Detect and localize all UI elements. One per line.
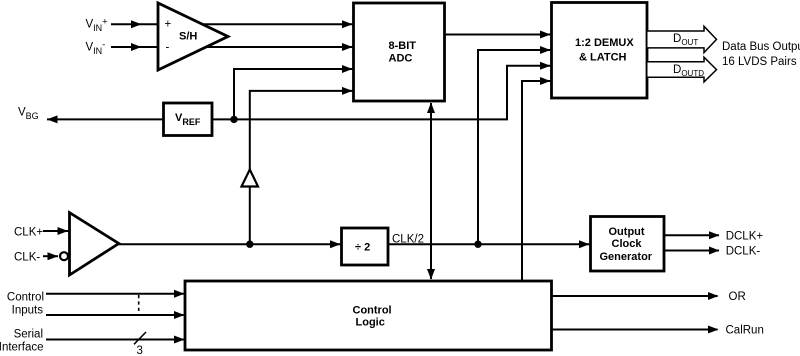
arrowhead VIN+ — [131, 20, 142, 28]
arrowhead DEMUX input 4 — [540, 77, 551, 85]
svg-text:Data Bus Output: Data Bus Output — [722, 41, 800, 53]
arrowhead ADC input 1 — [342, 20, 353, 28]
bus width slash 3 — [134, 332, 146, 344]
svg-text:Clock: Clock — [612, 238, 643, 250]
arrowhead CLK+ — [58, 227, 69, 235]
wire VBG output — [47, 118, 164, 120]
wire clock reference line to ADC input 4 — [250, 91, 353, 244]
arrowhead DCLK+ — [709, 231, 720, 239]
svg-text:+: + — [165, 19, 172, 31]
svg-text:Inputs: Inputs — [12, 305, 44, 317]
wire VREF to ADC (node between VREF dot and ADC input 3) — [234, 69, 353, 119]
wire DCLK+ output — [664, 234, 719, 236]
arrowhead control inputs 1 — [174, 290, 185, 298]
svg-text:Generator: Generator — [600, 251, 653, 263]
wire ADC to DEMUX — [445, 34, 551, 36]
arrowhead CLK- — [48, 252, 59, 260]
svg-text:16 LVDS Pairs: 16 LVDS Pairs — [722, 56, 797, 68]
svg-text:Interface: Interface — [0, 342, 44, 354]
wire CLK/2 net to output clock generator — [388, 243, 590, 245]
svg-text:ADC: ADC — [389, 53, 413, 65]
wire clock buffer to divide-by-2 — [119, 243, 341, 245]
arrowhead ADC input 3 — [342, 65, 353, 73]
arrowhead ADC-control up — [427, 103, 435, 114]
svg-text:S/H: S/H — [179, 31, 197, 43]
svg-text:& LATCH: & LATCH — [579, 51, 627, 63]
arrowhead OR — [708, 292, 719, 300]
wire CLK+ input — [43, 230, 69, 232]
wire CLK/2 to DEMUX input 2 — [478, 50, 551, 244]
svg-text:÷ 2: ÷ 2 — [355, 242, 370, 254]
arrowhead VBG (points left) — [47, 115, 58, 123]
svg-text:Control: Control — [353, 304, 392, 316]
inverting bubble on CLK- — [60, 252, 68, 260]
arrowhead serial interface — [174, 336, 185, 344]
svg-text:3: 3 — [137, 345, 143, 356]
svg-text:OR: OR — [729, 291, 746, 303]
arrowhead into output clock generator — [579, 240, 590, 248]
dashed ellipsis between control input lines — [138, 295, 140, 314]
svg-text:CLK-: CLK- — [14, 252, 40, 264]
svg-text:DCLK-: DCLK- — [726, 246, 761, 258]
block 1:2 DEMUX & LATCH — [552, 3, 648, 99]
arrowhead control inputs 2 — [174, 311, 185, 319]
junction node clock-to-ADC dot — [246, 241, 253, 248]
svg-text:CLK/2: CLK/2 — [392, 234, 424, 246]
bus arrow DOUTD — [648, 57, 717, 82]
reference buffer triangle — [242, 170, 259, 187]
svg-text:Logic: Logic — [356, 316, 385, 328]
junction node VREF dot — [230, 116, 237, 123]
svg-text:8-BIT: 8-BIT — [389, 40, 417, 52]
svg-text:CLK+: CLK+ — [14, 226, 43, 238]
wire DCLK- output — [664, 250, 719, 252]
svg-text:1:2 DEMUX: 1:2 DEMUX — [575, 37, 634, 49]
wire CLK- input — [43, 255, 58, 257]
wire VIN- input — [111, 46, 353, 48]
arrowhead DEMUX input 1 — [540, 31, 551, 39]
arrowhead DEMUX input 3 — [540, 62, 551, 70]
block 8-BIT ADC — [354, 3, 445, 101]
wire VIN+ input — [111, 23, 353, 25]
wire ADC to control logic (bidirectional) — [430, 103, 432, 279]
arrowhead DEMUX input 2 — [540, 46, 551, 54]
wire CalRun output — [552, 329, 718, 331]
junction node clock-to-DEMUX dot — [474, 241, 481, 248]
wire control inputs line 2 — [46, 314, 184, 316]
svg-text:Serial: Serial — [14, 329, 43, 341]
arrowhead ADC-control down — [427, 269, 435, 280]
op-amp S/H sample-and-hold — [158, 3, 228, 70]
svg-text:-: - — [166, 42, 170, 54]
wire OR output — [552, 295, 718, 297]
arrowhead ADC input 4 — [342, 87, 353, 95]
svg-text:Control: Control — [7, 292, 44, 304]
bus arrow DOUT — [648, 26, 717, 52]
svg-text:Output: Output — [609, 226, 645, 238]
block control logic — [185, 281, 552, 350]
block VREF — [164, 103, 213, 136]
clock input buffer — [60, 213, 119, 275]
block divide-by-2 — [342, 228, 389, 265]
wire VREF to DEMUX — [213, 66, 551, 120]
svg-text:DCLK+: DCLK+ — [726, 230, 764, 242]
arrowhead ADC input 2 — [342, 43, 353, 51]
wire control inputs line 1 — [46, 293, 184, 295]
block output clock generator — [591, 217, 665, 272]
wire control logic to DEMUX input 4 — [522, 81, 551, 281]
arrowhead into divide-by-2 — [330, 240, 341, 248]
arrowhead DCLK- — [709, 247, 720, 255]
arrowhead VIN- — [131, 43, 142, 51]
arrowhead CalRun — [708, 326, 719, 334]
svg-text:CalRun: CalRun — [726, 325, 764, 337]
wire serial interface — [46, 339, 184, 341]
